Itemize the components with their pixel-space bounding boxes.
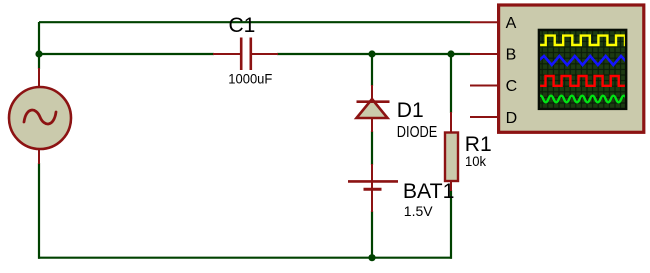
svg-text:10k: 10k — [465, 153, 487, 169]
svg-text:D1: D1 — [397, 99, 424, 122]
svg-text:D: D — [506, 110, 518, 127]
svg-text:1000uF: 1000uF — [228, 70, 272, 86]
svg-text:DIODE: DIODE — [397, 124, 438, 141]
svg-text:BAT1: BAT1 — [403, 180, 455, 203]
svg-text:C: C — [506, 78, 518, 95]
svg-text:A: A — [506, 15, 517, 32]
svg-text:C1: C1 — [229, 14, 256, 37]
svg-text:1.5V: 1.5V — [404, 203, 433, 219]
svg-text:B: B — [506, 47, 517, 64]
